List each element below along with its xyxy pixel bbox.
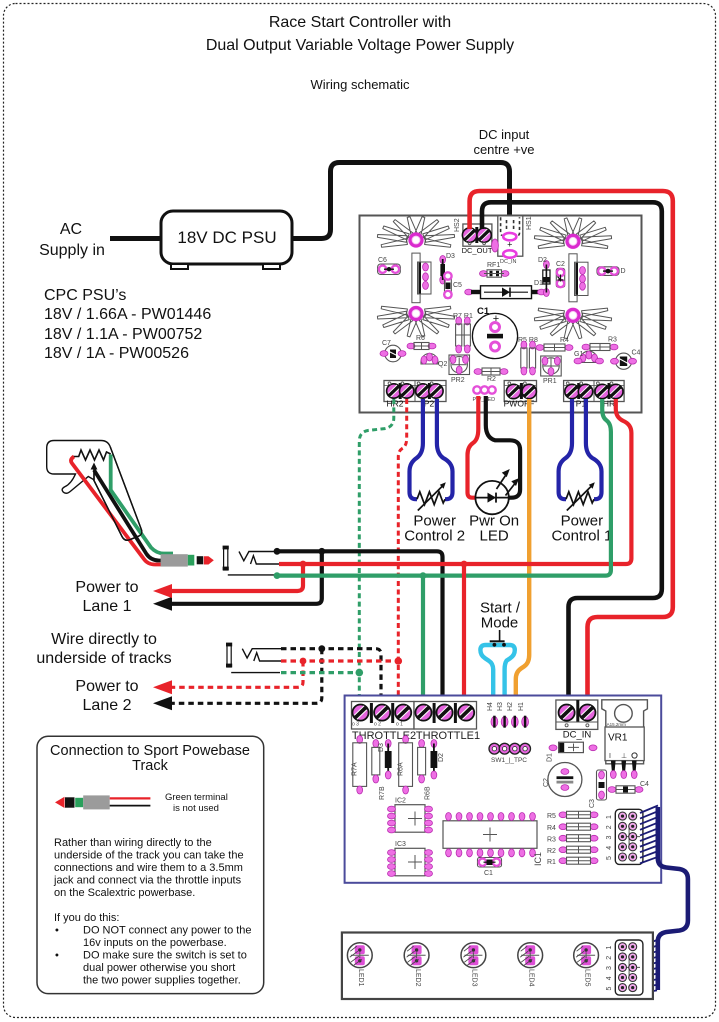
svg-text:Power to: Power to xyxy=(75,579,138,596)
svg-text:Race Start Controller with: Race Start Controller with xyxy=(269,14,451,31)
heatsink HS2 bottom fan xyxy=(377,306,454,337)
transistor C4 xyxy=(611,350,641,370)
svg-text:R6A: R6A xyxy=(398,762,405,776)
svg-text:LED2: LED2 xyxy=(414,969,421,987)
wire orange PWOFF to SW pad xyxy=(516,399,529,745)
svg-text:1: 1 xyxy=(606,946,613,950)
diode D2 bottom board xyxy=(431,740,446,780)
wire PSU output to DC_IN connector xyxy=(292,163,510,239)
regulator VR1 xyxy=(602,700,648,779)
node black jack2 xyxy=(318,645,325,652)
svg-text:18V DC PSU: 18V DC PSU xyxy=(177,228,276,247)
diode D1 bottom board xyxy=(546,742,597,762)
info box paragraph xyxy=(53,837,252,987)
transistor G1 xyxy=(574,351,604,364)
svg-text:⊥: ⊥ xyxy=(621,753,627,760)
wire red dashed Lane2 bus xyxy=(281,659,398,662)
jack socket Lane 2 xyxy=(226,643,281,673)
svg-text:•: • xyxy=(55,925,59,937)
svg-text:Track: Track xyxy=(132,758,168,774)
svg-text:DO NOT connect any power to th: DO NOT connect any power to the xyxy=(83,925,252,937)
svg-text:R4: R4 xyxy=(547,825,556,832)
svg-text:Connection to Sport Powebase: Connection to Sport Powebase xyxy=(50,743,250,759)
resistor R4 xyxy=(536,337,573,351)
terminal block THROTTLE1 xyxy=(414,702,477,730)
terminal block HR2 P2 xyxy=(384,381,446,409)
transistor Q2 xyxy=(421,353,447,368)
svg-text:D: D xyxy=(621,268,626,275)
svg-text:If you do this:: If you do this: xyxy=(54,912,119,924)
svg-text:D3: D3 xyxy=(378,743,385,752)
wire green dashed Lane2 bus xyxy=(281,671,359,674)
svg-text:Wiring schematic: Wiring schematic xyxy=(311,77,410,92)
capacitor C6 xyxy=(378,257,401,275)
diode D2 xyxy=(538,257,550,297)
svg-text:o 2: o 2 xyxy=(374,722,381,728)
resistors R5-R1 xyxy=(547,811,598,866)
svg-text:HS1: HS1 xyxy=(526,216,533,230)
node black branch xyxy=(318,548,325,555)
wire blue P1 to Power Control 1 left xyxy=(559,399,572,499)
wire green bus to THROTTLE1 xyxy=(421,576,425,700)
svg-text:H3: H3 xyxy=(497,702,504,711)
jack socket Lane 1 xyxy=(223,546,280,575)
svg-text:LED3: LED3 xyxy=(471,969,478,987)
svg-text:R5: R5 xyxy=(547,813,556,820)
IC2 xyxy=(388,798,433,833)
terminal block DC_OUT xyxy=(454,218,493,255)
wire red bus to THROTTLE1 xyxy=(462,564,466,700)
svg-text:4: 4 xyxy=(606,976,613,980)
LED LED1 xyxy=(347,943,372,968)
svg-text:C7: C7 xyxy=(382,340,391,347)
svg-text:Lane 2: Lane 2 xyxy=(83,697,132,714)
rheostat Power Control 1 xyxy=(566,482,595,510)
LED LED2 xyxy=(404,943,429,968)
svg-text:Supply in: Supply in xyxy=(39,242,105,259)
jack plug 3.5mm xyxy=(161,554,214,566)
diode D3 bottom board xyxy=(378,740,392,780)
resistor R6B xyxy=(418,740,432,801)
capacitor D4 xyxy=(597,267,626,276)
svg-text:IC2: IC2 xyxy=(395,798,406,805)
capacitor C1 bottom board xyxy=(478,858,502,878)
diode D3 xyxy=(440,253,455,284)
LED LED5 xyxy=(574,943,599,968)
terminal block THROTTLE2 xyxy=(352,702,415,730)
node red bus branch xyxy=(461,561,468,568)
svg-text:3: 3 xyxy=(606,966,613,970)
wire cyan switch loop xyxy=(480,645,514,746)
svg-text:VR1: VR1 xyxy=(608,733,628,744)
hand controller outline xyxy=(47,441,142,541)
LED board outline xyxy=(342,933,653,1000)
wire green controller to plug xyxy=(111,455,173,554)
svg-text:P2: P2 xyxy=(424,399,435,409)
wire red dashed to Lane2 arrow xyxy=(167,661,303,687)
svg-text:•: • xyxy=(55,950,59,962)
svg-text:AC: AC xyxy=(60,221,82,238)
svg-text:C5: C5 xyxy=(453,282,462,289)
svg-text:2: 2 xyxy=(606,956,613,960)
svg-text:Lane 1: Lane 1 xyxy=(83,598,132,615)
wire red DC_OUT to DC_IN bottom xyxy=(470,191,673,700)
svg-text:underside of the track you can: underside of the track you can take the xyxy=(54,850,244,862)
svg-text:D1: D1 xyxy=(534,280,543,287)
arrow red Lane 1 xyxy=(153,584,172,598)
capacitor C3 xyxy=(589,770,607,808)
svg-text:G1: G1 xyxy=(574,351,583,358)
svg-text:IC3: IC3 xyxy=(395,841,406,848)
svg-text:C2: C2 xyxy=(556,261,565,268)
diode D1 bridge xyxy=(465,280,546,299)
svg-text:DC_IN: DC_IN xyxy=(500,259,517,265)
node red dashed cross xyxy=(395,657,403,665)
wire black bus Lane1 xyxy=(277,551,443,700)
pads PW_LED xyxy=(473,386,496,403)
svg-text:dual power otherwise you short: dual power otherwise you short xyxy=(83,962,235,974)
svg-text:HR: HR xyxy=(603,399,615,409)
svg-text:R4: R4 xyxy=(560,337,569,344)
svg-text:R2: R2 xyxy=(547,848,556,855)
LED LED3 xyxy=(461,943,486,968)
svg-text:D2: D2 xyxy=(438,753,445,762)
wire black dashed to Lane2 arrow xyxy=(167,649,322,704)
controller board outline xyxy=(345,696,662,883)
svg-text:H4: H4 xyxy=(487,702,494,711)
svg-text:C1: C1 xyxy=(484,870,493,877)
svg-text:IC1: IC1 xyxy=(533,852,543,866)
wire red to Lane1 arrow xyxy=(167,564,303,591)
svg-text:Wire directly to: Wire directly to xyxy=(51,631,157,648)
svg-text:C6: C6 xyxy=(378,257,387,264)
wire red bus Lane1 to HR1 xyxy=(279,399,631,564)
svg-text:1: 1 xyxy=(606,815,613,819)
svg-text:LED1: LED1 xyxy=(357,969,364,987)
controller resistor zigzag xyxy=(74,450,111,460)
svg-text:Power to: Power to xyxy=(75,678,138,695)
node green dashed cross xyxy=(356,669,364,677)
capacitor C1 xyxy=(472,306,517,359)
wire bundle ribbon upper hatch xyxy=(640,806,658,864)
svg-text:C4: C4 xyxy=(632,350,641,357)
LED LED4 xyxy=(518,943,543,968)
svg-text:I: I xyxy=(609,753,611,760)
jack plug drawing in box xyxy=(55,795,150,809)
svg-text:DC_OUT: DC_OUT xyxy=(462,246,493,255)
svg-text:underside of tracks: underside of tracks xyxy=(36,650,171,667)
svg-text:R3: R3 xyxy=(608,337,617,344)
svg-text:on the Scalextric powerbase.: on the Scalextric powerbase. xyxy=(54,887,195,899)
svg-text:Mode: Mode xyxy=(481,615,519,632)
svg-text:PR1: PR1 xyxy=(543,378,557,385)
pads SW1_1_TPC xyxy=(489,743,530,764)
svg-text:SW1_|_TPC: SW1_|_TPC xyxy=(491,757,527,764)
svg-text:LED: LED xyxy=(480,528,509,545)
resistor R2 xyxy=(474,368,508,383)
svg-text:C3: C3 xyxy=(589,799,596,808)
wire red PW_LED to LED xyxy=(468,396,479,498)
svg-text:o 1: o 1 xyxy=(396,722,403,728)
wire green dashed HR2 to THROTTLE2 xyxy=(359,399,394,700)
capacitor C2 bottom board xyxy=(543,763,582,797)
svg-text:Control 1: Control 1 xyxy=(551,528,612,545)
svg-text:connections and wire them to a: connections and wire them to a 3.5mm xyxy=(54,862,243,874)
node green jack1 xyxy=(274,572,281,579)
heatsink HS1 top fan xyxy=(534,218,611,249)
transistor C7 xyxy=(380,340,406,362)
wire blue P1 to Power Control 1 right xyxy=(586,399,602,499)
resistor R6A xyxy=(398,736,413,795)
pin markers terminal strips xyxy=(359,242,613,725)
svg-text:R3: R3 xyxy=(547,837,556,844)
trimmer PR2 xyxy=(449,355,470,384)
node red jack1 xyxy=(300,561,307,568)
capacitor C4 bottom board xyxy=(608,781,649,793)
svg-text:A15.2mm: A15.2mm xyxy=(607,722,627,727)
svg-text:Rather than wiring directly to: Rather than wiring directly to the xyxy=(54,837,212,849)
svg-text:D1: D1 xyxy=(546,753,553,762)
svg-text:5: 5 xyxy=(606,856,613,860)
arrow red Lane 2 xyxy=(153,680,172,694)
wire green bus Lane1 to HR1 xyxy=(277,399,611,576)
wire bundle main run xyxy=(658,807,688,990)
trimmer PR1 xyxy=(541,356,562,385)
svg-text:R6B: R6B xyxy=(425,786,432,800)
wire black PW_LED to LED xyxy=(486,396,520,498)
svg-text:jack and connect via the throt: jack and connect via the throttle inputs xyxy=(53,875,242,887)
terminal block P1 HR xyxy=(564,381,625,409)
IC3 xyxy=(388,841,433,876)
svg-text:R7A: R7A xyxy=(352,762,359,776)
pads H4 H3 H2 H1 xyxy=(487,702,528,728)
svg-text:DC input: DC input xyxy=(479,127,530,142)
node black jack1 xyxy=(274,548,281,555)
wire black to Lane1 arrow xyxy=(167,551,322,604)
wire blue P2 to Power Control 2 right xyxy=(437,399,453,499)
svg-text:Q2: Q2 xyxy=(438,361,447,368)
wire blue P2 to Power Control 2 left xyxy=(410,399,423,499)
wire red dashed HR2 to THROTTLE2 xyxy=(398,399,406,708)
svg-text:HS2: HS2 xyxy=(454,218,461,232)
svg-text:C1: C1 xyxy=(477,306,490,317)
regulator VRa left xyxy=(418,262,432,294)
controller wiper arrow xyxy=(93,468,95,480)
capacitor C2 xyxy=(556,261,565,287)
inductor RF1 xyxy=(480,262,510,277)
svg-text:18V / 1A - PW00526: 18V / 1A - PW00526 xyxy=(44,345,189,362)
svg-text:centre +ve: centre +ve xyxy=(473,142,534,157)
node red jack2 xyxy=(300,658,307,665)
switch Start/Mode actuator xyxy=(480,600,521,647)
wire black controller to plug xyxy=(94,470,167,561)
terminal block PWOFF xyxy=(504,381,537,409)
svg-text:D3: D3 xyxy=(446,253,455,260)
svg-text:D2: D2 xyxy=(538,257,547,264)
svg-text:R6: R6 xyxy=(416,335,425,342)
PSU board outline xyxy=(360,216,642,413)
svg-text:LED4: LED4 xyxy=(527,969,534,987)
svg-text:3: 3 xyxy=(606,836,613,840)
heatsink HS1 bottom fan xyxy=(534,308,611,339)
svg-text:18V / 1.1A - PW00752: 18V / 1.1A - PW00752 xyxy=(44,326,202,343)
svg-text:DC_IN: DC_IN xyxy=(563,730,592,741)
wire red controller to plug xyxy=(71,457,161,565)
svg-text:THROTTLE1: THROTTLE1 xyxy=(416,730,480,742)
header J1 2x5 xyxy=(606,809,643,864)
svg-text:Control 2: Control 2 xyxy=(404,528,465,545)
resistor R6 xyxy=(407,335,436,350)
svg-text:H1: H1 xyxy=(518,702,525,711)
rheostat Power Control 2 xyxy=(417,482,446,510)
svg-text:18V / 1.66A - PW01446: 18V / 1.66A - PW01446 xyxy=(44,306,211,323)
connector DC_IN top xyxy=(492,216,533,265)
resistor R3 xyxy=(582,337,618,351)
svg-text:o 3: o 3 xyxy=(352,722,359,728)
capacitor C5 xyxy=(444,272,462,298)
regulator mount area right xyxy=(569,254,577,302)
svg-text:LED5: LED5 xyxy=(583,969,590,987)
svg-text:16v inputs on the powerbase.: 16v inputs on the powerbase. xyxy=(83,937,227,949)
terminal block DC_IN xyxy=(556,700,598,729)
resistors R7 R1 xyxy=(453,313,473,353)
svg-text:PR2: PR2 xyxy=(451,377,465,384)
svg-text:DO make sure the switch is set: DO make sure the switch is set to xyxy=(83,950,247,962)
svg-text:4: 4 xyxy=(606,846,613,850)
info box frame xyxy=(37,736,264,993)
resistors R5 R8 xyxy=(518,337,538,375)
svg-text:CPC PSU’s: CPC PSU’s xyxy=(44,287,126,304)
arrow black Lane 1 xyxy=(153,597,172,611)
svg-text:Dual Output Variable Voltage P: Dual Output Variable Voltage Power Suppl… xyxy=(206,37,514,54)
svg-text:C2: C2 xyxy=(543,778,550,787)
svg-text:5: 5 xyxy=(606,987,613,991)
heatsink HS2 top fan xyxy=(377,217,454,248)
svg-text:H2: H2 xyxy=(507,702,514,711)
node green bus branch xyxy=(420,572,427,579)
wire AC supply to PSU xyxy=(110,236,164,241)
svg-text:R1: R1 xyxy=(547,859,556,866)
svg-text:the two power supplies togethe: the two power supplies together. xyxy=(83,975,241,987)
svg-text:Green terminal: Green terminal xyxy=(165,792,228,803)
svg-text:+: + xyxy=(507,240,512,250)
IC1 xyxy=(443,813,543,867)
regulator VRb right xyxy=(575,262,589,295)
header J2 LED board xyxy=(606,940,643,995)
resistor R7A xyxy=(352,736,367,795)
wire black dashed Lane2 to THROTTLE2 xyxy=(281,649,381,700)
svg-text:RF1: RF1 xyxy=(487,262,500,269)
wire black DC_OUT to DC_IN bottom xyxy=(482,202,662,700)
svg-text:R7B: R7B xyxy=(379,786,386,800)
wire bundle lower hatch xyxy=(640,940,657,993)
arrow black Lane 2 xyxy=(153,696,172,710)
regulator mount area left xyxy=(412,253,420,303)
svg-text:is not used: is not used xyxy=(173,803,219,814)
LED Pwr On symbol xyxy=(475,469,519,514)
svg-text:C4: C4 xyxy=(640,781,649,788)
PSU box U1 xyxy=(161,211,292,269)
resistor R7B xyxy=(372,740,386,801)
svg-text:R2: R2 xyxy=(487,376,496,383)
controller grip outline overlay xyxy=(94,447,142,540)
svg-text:2: 2 xyxy=(606,825,613,829)
